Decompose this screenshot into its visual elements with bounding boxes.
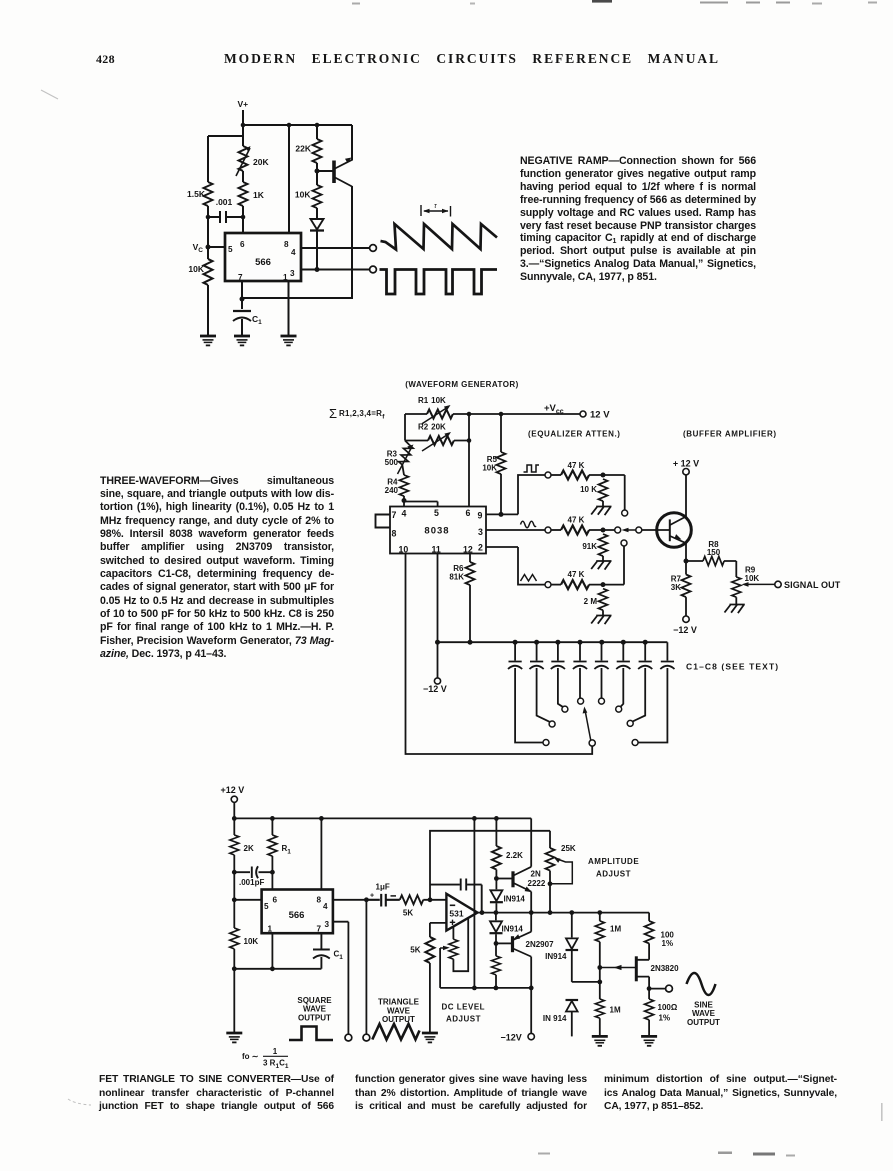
ground C1 bbox=[234, 336, 250, 345]
svg-text:12: 12 bbox=[463, 545, 473, 555]
square pulse icon bbox=[289, 1027, 333, 1041]
ground 10K bbox=[591, 507, 611, 516]
svg-text:12 V: 12 V bbox=[590, 410, 610, 421]
svg-text:4: 4 bbox=[402, 509, 407, 519]
contact C6 bbox=[616, 706, 622, 712]
svg-text:5: 5 bbox=[228, 245, 233, 254]
svg-text:C1: C1 bbox=[252, 314, 262, 326]
svg-text:500: 500 bbox=[385, 458, 399, 467]
junction VC bbox=[206, 245, 211, 250]
wire to pin 5 bbox=[234, 899, 261, 901]
junction 2.2K base node bbox=[494, 876, 499, 881]
svg-text:(EQUALIZER ATTEN.): (EQUALIZER ATTEN.) bbox=[528, 430, 621, 439]
capacitor C1 bottom bbox=[313, 933, 330, 969]
contact C5 bbox=[599, 698, 605, 704]
svg-text:8038: 8038 bbox=[424, 526, 449, 537]
ground left bottom bbox=[226, 1033, 242, 1042]
rotor arm arrow bbox=[585, 711, 591, 740]
sawtooth waveform bbox=[381, 224, 498, 250]
svg-text:81K: 81K bbox=[449, 573, 464, 582]
junction cap left bbox=[232, 870, 237, 875]
diode IN914 lower bbox=[495, 913, 497, 921]
junction cap right bbox=[241, 215, 246, 220]
junction pin1 rail bbox=[270, 966, 275, 971]
diode IN914 clamp lower bbox=[566, 999, 579, 1001]
potentiometer R3 500 bbox=[398, 443, 414, 466]
wire pin 6 bbox=[468, 414, 470, 507]
potentiometer 20K bbox=[239, 146, 248, 171]
svg-text:91K: 91K bbox=[582, 542, 597, 551]
negative supply bus bbox=[440, 987, 531, 989]
wire rotor to buffer base bbox=[642, 529, 669, 531]
resistor R1 bbox=[271, 818, 273, 835]
svg-text:R1,2,3,4=Rf: R1,2,3,4=Rf bbox=[339, 409, 385, 421]
terminal signal out bbox=[775, 581, 781, 587]
svg-text:8: 8 bbox=[317, 896, 322, 905]
potentiometer 25K bbox=[546, 848, 555, 871]
junction base node bbox=[315, 169, 320, 174]
junction 91K node bbox=[601, 528, 606, 533]
terminal -12V pin11 bbox=[434, 678, 440, 684]
wire 10K to ground bbox=[207, 285, 209, 336]
pin 8 stub connector bbox=[376, 515, 391, 528]
resistor 2M bbox=[599, 589, 608, 611]
FET TRIANGLE TO SINE caption col 3 bbox=[604, 1073, 837, 1114]
resistor 22K bbox=[313, 139, 322, 163]
FET TRIANGLE TO SINE caption col 2 bbox=[355, 1073, 587, 1114]
ground R9 bbox=[735, 597, 737, 604]
rotor arm middle bbox=[628, 529, 636, 531]
svg-text:5: 5 bbox=[434, 508, 439, 518]
junction cap right bbox=[270, 870, 275, 875]
svg-text:(BUFFER AMPLIFIER): (BUFFER AMPLIFIER) bbox=[683, 430, 777, 439]
contact C1 bbox=[543, 740, 549, 746]
svg-text:20K: 20K bbox=[253, 157, 269, 167]
junction 22K rail bbox=[315, 123, 320, 128]
svg-text:V+: V+ bbox=[238, 99, 249, 109]
junction 2907 base node bbox=[494, 941, 499, 946]
svg-text:SIGNAL OUT: SIGNAL OUT bbox=[784, 580, 841, 590]
contact C3 bbox=[562, 706, 568, 712]
svg-text:10K: 10K bbox=[482, 464, 497, 473]
svg-text:2N3820: 2N3820 bbox=[651, 964, 680, 973]
wire collector to +12V bbox=[685, 475, 687, 517]
resistor 47K sine bbox=[551, 529, 561, 531]
capacitor C6 bbox=[616, 642, 630, 706]
svg-text:9: 9 bbox=[478, 511, 483, 521]
svg-text:−12 V: −12 V bbox=[423, 684, 447, 694]
junction capacitor C6 bbox=[621, 640, 626, 645]
svg-text:7: 7 bbox=[238, 273, 243, 282]
svg-text:1: 1 bbox=[283, 273, 288, 282]
junction capacitor C2 bbox=[534, 640, 539, 645]
capacitor C2 bbox=[530, 642, 550, 722]
svg-text:1M: 1M bbox=[610, 1006, 621, 1015]
svg-text:1M: 1M bbox=[610, 925, 621, 934]
wire 5K to op-amp bbox=[423, 899, 446, 901]
svg-text:+Vcc: +Vcc bbox=[544, 403, 564, 416]
svg-text:1K: 1K bbox=[253, 190, 265, 200]
junction bottom rail left bbox=[232, 966, 237, 971]
wire pin 4 bbox=[333, 899, 367, 901]
wire pin 3 sine branch bbox=[486, 529, 545, 531]
svg-text:IN914: IN914 bbox=[545, 952, 567, 961]
resistor 2.2K bbox=[495, 818, 497, 846]
resistor R4 240 bbox=[402, 465, 404, 475]
resistor 5K ground leg bbox=[425, 937, 434, 963]
svg-text:3K: 3K bbox=[671, 583, 681, 592]
svg-text:+ 12 V: + 12 V bbox=[673, 459, 699, 469]
resistor 10K left bbox=[204, 259, 213, 285]
ground 100 bbox=[641, 1036, 657, 1045]
wire pin 7 bbox=[241, 281, 243, 309]
svg-text:3: 3 bbox=[325, 920, 330, 929]
svg-text:100Ω: 100Ω bbox=[658, 1003, 678, 1012]
potentiometer R1 10K bbox=[427, 410, 453, 419]
switch contact square branch bbox=[545, 472, 551, 478]
resistor 5K input bbox=[400, 895, 424, 904]
THREE-WAVEFORM caption bbox=[100, 475, 334, 662]
svg-text:C1: C1 bbox=[334, 950, 344, 962]
terminal +12V bbox=[683, 469, 689, 475]
junction bus collector bbox=[529, 986, 534, 991]
contact C4 bbox=[578, 698, 584, 704]
wire 20K to 1K bbox=[242, 171, 244, 182]
capacitor C1 bbox=[233, 310, 251, 312]
feedback capacitor bbox=[430, 879, 482, 913]
svg-text:531: 531 bbox=[449, 909, 463, 919]
wire pin 3 square output bbox=[333, 922, 349, 1034]
svg-text:WAVE: WAVE bbox=[692, 1009, 716, 1018]
junction rail 2.2K bbox=[494, 816, 499, 821]
page title bbox=[224, 51, 720, 67]
svg-text:1: 1 bbox=[273, 1047, 278, 1056]
sine icon bbox=[687, 973, 716, 995]
svg-text:2N: 2N bbox=[531, 870, 541, 879]
op-amp 531 bbox=[446, 894, 477, 931]
svg-text:2 M: 2 M bbox=[584, 597, 598, 606]
wire left branch top bbox=[208, 136, 243, 182]
wire base 2N2222 bbox=[496, 878, 511, 880]
svg-text:2: 2 bbox=[478, 543, 483, 553]
wire 1K to pin 6 bbox=[242, 206, 244, 233]
svg-text:−12 V: −12 V bbox=[673, 625, 697, 635]
NEGATIVE RAMP caption bbox=[520, 155, 756, 284]
svg-text:ADJUST: ADJUST bbox=[596, 870, 631, 879]
contact circle square to rotor bbox=[622, 510, 628, 516]
wire +12V rail bbox=[234, 802, 531, 818]
transistor buffer 2N3709 bbox=[657, 513, 692, 548]
svg-text:10K: 10K bbox=[244, 937, 259, 946]
svg-text:OUTPUT: OUTPUT bbox=[382, 1015, 415, 1024]
svg-text:TRIANGLE: TRIANGLE bbox=[378, 998, 420, 1007]
junction rail left bbox=[232, 816, 237, 821]
resistor 47K triangle bbox=[551, 584, 561, 586]
junction V+ rail bbox=[241, 123, 246, 128]
triangle wave icon bbox=[521, 575, 537, 582]
svg-text:6: 6 bbox=[466, 508, 471, 518]
svg-text:2K: 2K bbox=[244, 844, 254, 853]
wire cap to VC node bbox=[233, 872, 235, 900]
contact circle sine bbox=[615, 527, 621, 533]
svg-text:R2 20K: R2 20K bbox=[418, 423, 446, 432]
resistor R5 10K bbox=[500, 414, 502, 452]
wire +Vcc rail bbox=[405, 413, 580, 415]
wire emitter down bbox=[685, 543, 687, 574]
square wave icon bbox=[524, 465, 540, 472]
contact C8 bbox=[632, 740, 638, 746]
potentiometer R2 20K bbox=[428, 436, 454, 445]
tau marker bbox=[421, 205, 451, 217]
resistor R8 150 bbox=[686, 560, 703, 562]
output line bbox=[478, 912, 650, 914]
wire clamp connector bbox=[572, 981, 600, 983]
junction capacitor C4 bbox=[578, 640, 583, 645]
wire R1 to pin 6 bbox=[271, 856, 273, 890]
svg-text:3 R1C1: 3 R1C1 bbox=[263, 1059, 289, 1071]
junction pin3 line bbox=[315, 267, 320, 272]
junction capacitor C1 bbox=[513, 640, 518, 645]
svg-text:1%: 1% bbox=[662, 939, 674, 948]
junction feedback output bbox=[480, 910, 485, 915]
junction R6 rail bbox=[468, 640, 473, 645]
svg-text:+: + bbox=[370, 893, 374, 900]
svg-text:1: 1 bbox=[268, 925, 273, 934]
page number bbox=[96, 52, 115, 67]
wire riser to 25K line bbox=[430, 831, 550, 900]
wire pin 11 bbox=[437, 554, 439, 679]
resistor 100 lower bbox=[645, 999, 654, 1020]
junction pin7 C1 bbox=[240, 297, 245, 302]
junction R4 node bbox=[402, 498, 407, 503]
svg-text:4: 4 bbox=[323, 902, 328, 911]
svg-text:3: 3 bbox=[478, 527, 483, 537]
svg-text:VC: VC bbox=[193, 242, 204, 254]
svg-text:.001pF: .001pF bbox=[239, 878, 264, 887]
wire pin 8 bbox=[320, 818, 322, 889]
junction emitter node bbox=[684, 559, 689, 564]
junction capacitor C7 bbox=[643, 640, 648, 645]
svg-text:566: 566 bbox=[255, 257, 271, 268]
junction 1M output bbox=[597, 910, 602, 915]
wire pin 9 to square branch bbox=[486, 475, 545, 514]
wire R4 to pins 4,5 bbox=[404, 496, 438, 507]
svg-text:.001: .001 bbox=[216, 197, 233, 207]
capacitor C8 bbox=[638, 642, 674, 742]
resistor 2K bbox=[233, 818, 235, 835]
wire 22K to 10K bbox=[316, 163, 318, 185]
pot bottom loop bbox=[453, 918, 468, 971]
wire VC to pin 5 bbox=[208, 246, 225, 248]
svg-text:2N2907: 2N2907 bbox=[526, 940, 555, 949]
svg-text:150: 150 bbox=[707, 548, 721, 557]
wire VC down bbox=[207, 247, 209, 259]
resistor 10K equalizer bbox=[599, 479, 608, 501]
svg-text:4: 4 bbox=[291, 248, 296, 257]
capacitor C7 bbox=[633, 642, 653, 721]
svg-text:10K: 10K bbox=[745, 574, 760, 583]
wire 2K to cap node bbox=[233, 855, 235, 872]
svg-text:240: 240 bbox=[385, 486, 399, 495]
resistor 91K bbox=[599, 534, 608, 556]
svg-text:10: 10 bbox=[399, 545, 409, 555]
terminal pin3 output bbox=[370, 266, 377, 273]
junction cap left bbox=[206, 215, 211, 220]
IC 566 box bbox=[225, 233, 301, 281]
svg-text:Σ: Σ bbox=[329, 406, 337, 421]
svg-text:5K: 5K bbox=[410, 946, 420, 955]
svg-text:OUTPUT: OUTPUT bbox=[298, 1013, 331, 1022]
junction source output bbox=[648, 985, 650, 999]
junction pin6 rail bbox=[467, 412, 472, 417]
wire non-inverting input bbox=[430, 923, 447, 937]
terminal triangle wave output bbox=[363, 1034, 370, 1041]
wire pin 10 long bbox=[406, 554, 593, 755]
ground 2M bbox=[591, 616, 611, 625]
square pulse waveform bbox=[380, 270, 498, 295]
svg-text:10K: 10K bbox=[295, 190, 311, 200]
svg-text:6: 6 bbox=[240, 240, 245, 249]
junction pin8 rail bbox=[287, 123, 292, 128]
terminal -12V bottom bbox=[528, 1033, 534, 1039]
contact C2 bbox=[549, 721, 555, 727]
IC 566 bottom box bbox=[262, 890, 333, 934]
wire rail to 20K bbox=[242, 125, 244, 146]
junction 25K output bbox=[548, 910, 553, 915]
junction rail pin8 bbox=[319, 816, 324, 821]
resistor R7 3K bbox=[682, 575, 691, 598]
svg-text:(WAVEFORM GENERATOR): (WAVEFORM GENERATOR) bbox=[405, 380, 518, 389]
svg-text:ADJUST: ADJUST bbox=[446, 1015, 481, 1024]
svg-text:WAVE: WAVE bbox=[303, 1005, 327, 1014]
wire diode to pin3 line bbox=[316, 231, 318, 270]
junction emitters output bbox=[529, 910, 534, 915]
junction bus diode chain bbox=[494, 986, 499, 991]
FET TRIANGLE TO SINE caption col 1 bbox=[99, 1073, 334, 1114]
svg-text:R1: R1 bbox=[282, 844, 292, 856]
resistor 1M upper bbox=[599, 913, 601, 921]
wire R2 row bbox=[405, 440, 469, 442]
transistor Q1 bbox=[332, 161, 336, 184]
wire V+ stem and top rail bbox=[243, 110, 352, 125]
wire triangle contact down bbox=[623, 546, 625, 585]
capacitor .001 bbox=[208, 211, 243, 223]
wire pin 4 output bbox=[301, 247, 370, 249]
wire pin 1 bbox=[271, 933, 273, 969]
resistor 1K bbox=[239, 182, 248, 206]
diode IN914 upper bbox=[490, 890, 502, 901]
terminal pin4 output bbox=[370, 245, 377, 252]
svg-text:τ: τ bbox=[434, 203, 437, 210]
junction pin 9 R5 bbox=[499, 512, 504, 517]
rotor switch contact bbox=[589, 740, 595, 746]
wire collector down and to C1 node bbox=[242, 186, 352, 298]
wire pin 8 bbox=[288, 125, 290, 233]
svg-text:fo ∼: fo ∼ bbox=[242, 1052, 259, 1061]
svg-text:47 K: 47 K bbox=[568, 461, 585, 470]
svg-text:1μF: 1μF bbox=[376, 883, 390, 892]
capacitor C1 bbox=[508, 642, 543, 742]
wire 1.5K to cap node bbox=[207, 206, 209, 217]
wire left vertical bbox=[405, 414, 410, 445]
contact circle triangle to rotor bbox=[621, 540, 627, 546]
resistor 10K bottom bbox=[233, 900, 235, 928]
junction capacitor C5 bbox=[599, 640, 604, 645]
resistor 100 upper bbox=[648, 913, 650, 921]
capacitor C3 bbox=[551, 642, 565, 707]
svg-text:WAVE: WAVE bbox=[387, 1006, 411, 1015]
sine wave icon bbox=[521, 521, 537, 528]
svg-text:25K: 25K bbox=[561, 844, 576, 853]
junction rail supply riser bbox=[472, 816, 477, 821]
wire pin 3 output bbox=[301, 269, 370, 271]
svg-text:1%: 1% bbox=[659, 1014, 671, 1023]
ground left bbox=[200, 336, 216, 345]
ground 1M bbox=[592, 1036, 608, 1045]
svg-text:47 K: 47 K bbox=[568, 570, 585, 579]
svg-text:SINE: SINE bbox=[694, 1001, 713, 1010]
wire C1 to ground bbox=[241, 319, 243, 336]
junction pin4 node bbox=[364, 897, 369, 902]
svg-text:2.2K: 2.2K bbox=[506, 851, 523, 860]
capacitor .001pF bbox=[234, 866, 272, 878]
ground 5K bbox=[422, 1033, 438, 1042]
svg-text:R1 10K: R1 10K bbox=[418, 396, 446, 405]
terminal square wave output bbox=[345, 1034, 352, 1041]
svg-text:IN914: IN914 bbox=[504, 895, 526, 904]
wire emitter to rail bbox=[351, 125, 353, 161]
svg-text:+12 V: +12 V bbox=[221, 785, 245, 795]
potentiometer R9 10K bbox=[732, 577, 741, 597]
switch contact triangle branch bbox=[545, 582, 551, 588]
junction gate node bbox=[597, 965, 602, 970]
junction 10K node bbox=[601, 473, 606, 478]
svg-text:2222: 2222 bbox=[528, 879, 546, 888]
junction pin 11 rail bbox=[435, 640, 440, 645]
potentiometer DC level 5K bbox=[452, 926, 454, 939]
diode CR1 bbox=[311, 219, 324, 230]
switch contact sine branch bbox=[545, 527, 551, 533]
junction diode clamp output bbox=[569, 910, 574, 915]
capacitor bank rail bbox=[438, 641, 668, 643]
svg-text:−12V: −12V bbox=[501, 1033, 522, 1043]
diode IN914 clamp upper bbox=[571, 913, 573, 938]
ground pin1 bbox=[281, 336, 297, 345]
junction clamp 1M column bbox=[597, 980, 602, 985]
junction diode chain output bbox=[494, 910, 499, 915]
bottom rail bbox=[234, 968, 321, 970]
transistor 2N2907 bbox=[511, 936, 514, 952]
junction capacitor C3 bbox=[555, 640, 560, 645]
contact C7 bbox=[627, 720, 633, 726]
resistor 1M lower bbox=[595, 999, 604, 1018]
junction 2M node bbox=[601, 582, 606, 587]
resistor 1.5K bbox=[204, 182, 213, 206]
resistor R6 81K bbox=[469, 554, 471, 563]
svg-text:47 K: 47 K bbox=[568, 516, 585, 525]
wire cap to VC node bbox=[207, 217, 209, 247]
wire 10K to ground bbox=[233, 949, 235, 1033]
junction inverting input bbox=[428, 897, 433, 902]
capacitor C4 bbox=[573, 642, 587, 698]
svg-text:OUTPUT: OUTPUT bbox=[687, 1018, 720, 1027]
svg-text:7: 7 bbox=[317, 925, 322, 934]
junction VC node bbox=[232, 897, 237, 902]
transistor 2N2222 bbox=[511, 871, 514, 887]
svg-text:AMPLITUDE: AMPLITUDE bbox=[588, 857, 639, 866]
wire triangle output bbox=[365, 900, 367, 1034]
junction bus riser bbox=[472, 986, 477, 991]
